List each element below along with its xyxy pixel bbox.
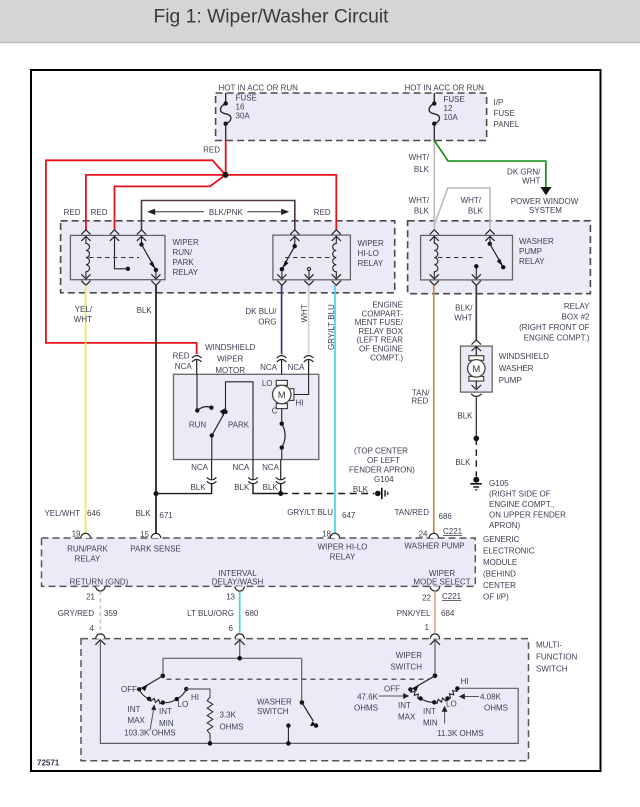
svg-text:680: 680 <box>245 609 259 618</box>
svg-text:15: 15 <box>140 530 149 539</box>
svg-text:COMPT.): COMPT.) <box>370 353 403 362</box>
svg-text:647: 647 <box>342 511 356 520</box>
connector (motor pin bottom mid) <box>248 460 258 484</box>
ground G104 <box>349 447 415 500</box>
coil (hi-lo relay) <box>333 237 337 278</box>
wire BLK dashed to ground G104 <box>281 493 375 495</box>
svg-text:RUN/: RUN/ <box>173 248 193 257</box>
switch (hi-lo relay contacts) <box>280 237 297 278</box>
svg-text:C: C <box>272 407 278 416</box>
pin (washer pump bottom) <box>472 381 482 390</box>
svg-text:BLK: BLK <box>414 165 430 174</box>
svg-text:DK GRN/: DK GRN/ <box>507 168 541 177</box>
coil (run/park relay) <box>86 237 90 278</box>
pin 24 (GEM washer pump) <box>404 527 464 551</box>
svg-text:MENT FUSE/: MENT FUSE/ <box>355 318 404 327</box>
svg-text:16: 16 <box>236 103 245 112</box>
node BLK junction to motor <box>154 491 159 496</box>
svg-text:OFF: OFF <box>121 685 137 694</box>
svg-text:WHT: WHT <box>454 314 472 323</box>
svg-text:WHT: WHT <box>74 315 92 324</box>
svg-text:WHT/: WHT/ <box>409 153 430 162</box>
svg-text:646: 646 <box>87 509 101 518</box>
svg-text:PUMP: PUMP <box>519 247 542 256</box>
svg-text:LO: LO <box>446 700 457 709</box>
connector (motor pin HI top) <box>304 356 314 375</box>
svg-text:BLK: BLK <box>137 306 153 315</box>
pin (hi-lo coil top) <box>332 230 341 241</box>
node BLK to ground junction <box>474 436 480 442</box>
node red junction <box>222 172 228 178</box>
switch (motor RUN contact) <box>189 374 214 429</box>
svg-text:GRY/LT BLU: GRY/LT BLU <box>327 304 336 350</box>
svg-text:(TOP CENTER: (TOP CENTER <box>354 447 408 456</box>
svg-text:ENGINE COMPT.): ENGINE COMPT.) <box>524 334 590 343</box>
switch (washer relay contacts) <box>488 237 506 269</box>
wire (park contact to mid bottom pin) <box>226 382 254 460</box>
svg-text:WIPER HI-LO: WIPER HI-LO <box>318 543 368 552</box>
contact (hi-lo mid open) <box>307 267 310 270</box>
svg-text:BLK: BLK <box>135 509 151 518</box>
pin (run/park switch bottom) <box>151 274 160 285</box>
wire BLK motor right pin to junction <box>280 483 282 494</box>
switch (washer switch) <box>257 698 318 746</box>
svg-text:FUSE: FUSE <box>236 94 257 103</box>
fuse 16 30A <box>220 93 256 141</box>
svg-text:YEL/: YEL/ <box>75 305 93 314</box>
label 4.08K OHMS pointer <box>459 693 508 713</box>
svg-text:NCA: NCA <box>191 463 209 472</box>
svg-text:RELAY: RELAY <box>330 553 356 562</box>
wire LT BLU/ORG pin 13 to pin 6 <box>239 591 241 633</box>
mechanical link (run/park) <box>89 257 139 259</box>
label BLK/PNK with arrows <box>147 208 289 217</box>
svg-text:RELAY: RELAY <box>519 257 545 266</box>
connector (motor pin bottom left) <box>207 460 217 484</box>
pin 13 (GEM interval delay/wash) <box>212 569 264 602</box>
svg-text:684: 684 <box>441 609 455 618</box>
svg-text:M: M <box>472 364 480 375</box>
svg-text:359: 359 <box>104 609 118 618</box>
wire GRY/LT BLU hi-lo coil to GEM pin 18 <box>334 285 336 534</box>
svg-text:PNK/YEL: PNK/YEL <box>397 609 431 618</box>
svg-text:PARK: PARK <box>228 421 250 430</box>
svg-text:INT: INT <box>159 707 172 716</box>
label 47.6K OHMS pointer <box>354 693 409 713</box>
svg-text:OF LEFT: OF LEFT <box>367 456 400 465</box>
svg-text:1: 1 <box>425 623 430 632</box>
svg-text:(RIGHT FRONT OF: (RIGHT FRONT OF <box>519 323 589 332</box>
svg-text:MIN: MIN <box>159 719 174 728</box>
svg-text:BLK: BLK <box>414 207 430 216</box>
svg-text:HI: HI <box>191 693 199 702</box>
svg-text:BLK: BLK <box>190 483 206 492</box>
svg-text:YEL/WHT: YEL/WHT <box>44 509 80 518</box>
mechanical link (MFS) <box>167 678 430 680</box>
switch (wiper mode rotary) <box>384 674 469 728</box>
pin (washer pump top) <box>472 340 482 356</box>
svg-text:WIPER: WIPER <box>358 239 384 248</box>
ground G105 <box>470 477 566 530</box>
header bar <box>0 0 640 43</box>
motor M2 washer pump <box>468 356 486 381</box>
svg-text:HI-LO: HI-LO <box>358 249 379 258</box>
svg-text:FUSE: FUSE <box>494 109 515 118</box>
svg-text:OF I/P): OF I/P) <box>483 593 509 602</box>
svg-text:MOTOR: MOTOR <box>215 366 245 375</box>
svg-text:NCA: NCA <box>175 362 193 371</box>
relay U2 wiper hi-lo relay <box>273 235 384 280</box>
svg-text:C221: C221 <box>442 592 462 601</box>
wire RED branch to middle pin <box>115 175 226 230</box>
svg-text:MIN: MIN <box>423 719 438 728</box>
pin 18 (GEM wiper hi-lo relay) <box>318 530 368 562</box>
svg-text:WASHER: WASHER <box>257 698 292 707</box>
wire DK BLU/ORG hi-lo to motor LO <box>281 285 283 354</box>
pin 1 (MFS) <box>425 623 440 645</box>
switch (interval delay rotary) <box>121 674 199 728</box>
svg-text:RELAY: RELAY <box>173 268 199 277</box>
windshield washer pump box <box>461 346 550 392</box>
svg-text:4.08K: 4.08K <box>480 693 502 702</box>
svg-text:I/P: I/P <box>494 98 504 107</box>
svg-text:PUMP: PUMP <box>499 376 522 385</box>
svg-text:ELECTRONIC: ELECTRONIC <box>483 547 535 556</box>
windshield wiper motor box <box>174 343 319 460</box>
svg-text:12: 12 <box>444 104 453 113</box>
svg-text:MODE SELECT: MODE SELECT <box>413 578 470 587</box>
svg-text:WHT: WHT <box>522 177 540 186</box>
svg-text:13: 13 <box>226 593 235 602</box>
svg-text:FUSE: FUSE <box>444 95 465 104</box>
svg-text:DK BLU/: DK BLU/ <box>245 307 277 316</box>
svg-text:HI: HI <box>461 677 469 686</box>
wire TAN/RED washer coil to GEM pin 24 <box>433 285 435 534</box>
svg-text:INT: INT <box>398 701 411 710</box>
wire RED main bus left coil pin to hi-lo coil pin <box>86 175 336 230</box>
pin 4 (MFS) <box>90 624 106 645</box>
svg-text:WIPER: WIPER <box>173 238 199 247</box>
svg-text:APRON): APRON) <box>489 521 520 530</box>
wire WHT/BLK branch to washer relay switch <box>434 188 490 230</box>
svg-text:NCA: NCA <box>233 463 251 472</box>
pin (run/park mid top) <box>110 230 119 241</box>
svg-text:SWITCH: SWITCH <box>257 707 289 716</box>
svg-text:WIPER: WIPER <box>396 651 422 660</box>
svg-text:OHMS: OHMS <box>220 723 244 732</box>
svg-text:FUNCTION: FUNCTION <box>536 653 578 662</box>
svg-text:HOT IN ACC OR RUN: HOT IN ACC OR RUN <box>405 84 485 93</box>
svg-text:OF ENGINE: OF ENGINE <box>359 345 403 354</box>
svg-text:G105: G105 <box>489 479 509 488</box>
svg-text:POWER WINDOW: POWER WINDOW <box>511 197 579 206</box>
svg-text:ON UPPER FENDER: ON UPPER FENDER <box>489 511 566 520</box>
pin 21 (GEM return gnd) <box>70 578 129 602</box>
svg-text:COMPART-: COMPART- <box>362 309 404 318</box>
svg-text:BLK/: BLK/ <box>455 304 473 313</box>
pin (washer coil top) <box>430 230 439 241</box>
svg-text:NCA: NCA <box>288 363 306 372</box>
svg-text:TAN/RED: TAN/RED <box>394 508 429 517</box>
svg-text:BLK: BLK <box>353 485 369 494</box>
wire BLK/WHT washer relay to pump <box>475 285 477 340</box>
coil (washer relay) <box>434 237 438 278</box>
svg-text:(RIGHT SIDE OF: (RIGHT SIDE OF <box>489 490 551 499</box>
mechanical link (hi-lo) <box>285 257 332 259</box>
wire (run/park mid contact) <box>115 237 128 269</box>
engine compartment fuse/relay box (dashed) <box>61 221 404 362</box>
svg-text:22: 22 <box>422 594 431 603</box>
svg-text:671: 671 <box>159 511 173 520</box>
svg-text:(BEHIND: (BEHIND <box>483 570 516 579</box>
svg-text:RELAY: RELAY <box>75 555 101 564</box>
svg-text:RUN/PARK: RUN/PARK <box>67 545 108 554</box>
svg-text:BLK: BLK <box>468 207 484 216</box>
svg-text:HOT IN ACC OR RUN: HOT IN ACC OR RUN <box>219 84 299 93</box>
svg-text:RELAY: RELAY <box>358 259 384 268</box>
svg-text:INT: INT <box>128 705 141 714</box>
relay U3 washer pump relay <box>421 235 554 280</box>
svg-text:RELAY: RELAY <box>564 302 590 311</box>
svg-text:RUN: RUN <box>189 421 207 430</box>
svg-text:72571: 72571 <box>37 759 60 768</box>
svg-text:WASHER PUMP: WASHER PUMP <box>404 542 464 551</box>
svg-text:BLK/PNK: BLK/PNK <box>209 208 243 217</box>
wire pin 1 to wiper switch pivot <box>434 641 436 676</box>
wire BLK run/park switch to GEM pin 15 <box>155 285 157 534</box>
wire WHT/BLK from fuse 12 to washer relay coil <box>433 141 435 230</box>
pin (hi-lo arm bottom) <box>277 274 286 285</box>
wire GRY/RED pin 21 to pin 4 (dashed) <box>99 591 101 633</box>
svg-text:OHMS: OHMS <box>354 704 378 713</box>
switch (motor PARK contact) <box>210 408 250 459</box>
svg-text:LO: LO <box>178 700 189 709</box>
svg-text:RED: RED <box>411 397 428 406</box>
switch (motor internal C breaker) <box>280 409 286 460</box>
wire WHT hi-lo to motor HI <box>308 285 310 354</box>
wire DK GRN/WHT to power window system <box>434 141 546 188</box>
svg-text:(LEFT REAR: (LEFT REAR <box>356 336 403 345</box>
pin (hi-lo mid bottom) <box>304 274 313 285</box>
pin (washer mid bottom) <box>472 274 481 285</box>
svg-text:PARK: PARK <box>173 258 195 267</box>
svg-text:GENERIC: GENERIC <box>483 535 520 544</box>
svg-text:RED: RED <box>203 146 220 155</box>
svg-text:WHT/: WHT/ <box>409 196 430 205</box>
wire PNK/YEL pin 22 to pin 1 <box>434 591 436 633</box>
contact (washer mid) <box>474 264 478 268</box>
svg-text:4: 4 <box>90 624 95 633</box>
svg-text:47.6K: 47.6K <box>357 693 379 702</box>
svg-text:RELAY BOX: RELAY BOX <box>358 327 403 336</box>
svg-text:FENDER APRON): FENDER APRON) <box>349 466 415 475</box>
svg-text:WHT/: WHT/ <box>461 196 482 205</box>
svg-text:WINDSHIELD: WINDSHIELD <box>499 352 549 361</box>
svg-text:OFF: OFF <box>384 685 400 694</box>
pin 19 (GEM run/park relay) <box>67 530 108 564</box>
svg-text:MODULE: MODULE <box>483 558 517 567</box>
connector (motor pin LO top) <box>277 356 287 375</box>
svg-text:LO: LO <box>262 379 273 388</box>
svg-text:PANEL: PANEL <box>494 120 520 129</box>
connector (motor pin RED top) <box>192 356 202 375</box>
pin 22 (GEM wiper mode select) <box>413 569 470 603</box>
svg-text:INT: INT <box>423 707 436 716</box>
svg-text:NCA: NCA <box>262 463 280 472</box>
svg-text:RED: RED <box>64 208 81 217</box>
pin (hi-lo coil bottom) <box>332 274 341 285</box>
svg-text:103.3K OHMS: 103.3K OHMS <box>124 729 176 738</box>
relay box #2 (dashed) <box>408 221 591 343</box>
svg-text:686: 686 <box>439 512 453 521</box>
diagram border frame <box>31 70 601 771</box>
connector (motor pin bottom right) <box>276 460 286 484</box>
fuse 12 10A <box>429 93 465 141</box>
svg-text:HI: HI <box>296 399 304 408</box>
svg-text:Fig 1: Wiper/Washer Circuit: Fig 1: Wiper/Washer Circuit <box>154 7 390 28</box>
svg-text:RED: RED <box>173 352 190 361</box>
svg-text:RED: RED <box>314 208 331 217</box>
svg-text:GRY/LT BLU: GRY/LT BLU <box>287 508 333 517</box>
svg-text:PARK SENSE: PARK SENSE <box>130 545 181 554</box>
svg-text:BLK: BLK <box>263 483 279 492</box>
wire YEL/WHT run/park coil to GEM pin 19 <box>85 285 87 534</box>
mechanical link (washer) <box>438 257 484 259</box>
wire HI to 3.3K resistor <box>186 689 210 697</box>
relay U1 wiper run/park relay <box>70 235 199 279</box>
svg-text:10A: 10A <box>444 113 459 122</box>
wire ground rail (pin 4 loop) <box>100 641 518 744</box>
svg-text:24: 24 <box>419 530 428 539</box>
pin 15 (GEM park sense) <box>130 530 181 554</box>
multi-function switch (dashed box) <box>81 639 578 761</box>
connector (washer pump lower) <box>471 394 481 439</box>
svg-text:MULTI-: MULTI- <box>536 641 562 650</box>
switch (run/park relay contacts) <box>139 237 158 278</box>
svg-text:OHMS: OHMS <box>484 704 508 713</box>
generic electronic module GEM (dashed box) <box>42 535 535 602</box>
pin (washer switch top) <box>485 230 494 241</box>
svg-text:MAX: MAX <box>398 713 416 722</box>
svg-text:RED: RED <box>91 208 108 217</box>
svg-text:WASHER: WASHER <box>499 364 534 373</box>
svg-text:M: M <box>278 390 286 401</box>
svg-text:3.3K: 3.3K <box>220 711 237 720</box>
svg-text:C221: C221 <box>443 527 463 536</box>
svg-text:ENGINE COMPT.,: ENGINE COMPT., <box>489 500 554 509</box>
svg-text:LT BLU/ORG: LT BLU/ORG <box>187 609 234 618</box>
svg-text:RETURN (GND): RETURN (GND) <box>70 578 129 587</box>
svg-text:WIPER: WIPER <box>217 355 243 364</box>
svg-text:6: 6 <box>229 624 234 633</box>
svg-text:SWITCH: SWITCH <box>390 663 422 672</box>
svg-text:30A: 30A <box>236 112 251 121</box>
svg-text:NCA: NCA <box>260 363 278 372</box>
label 103.3K OHMS pointer <box>124 704 176 737</box>
svg-text:SYSTEM: SYSTEM <box>529 206 562 215</box>
svg-text:BLK: BLK <box>457 412 473 421</box>
wire BLK dashed to ground G105 <box>475 438 477 476</box>
svg-text:MAX: MAX <box>128 716 146 725</box>
wire RED from fuse 16 to junction <box>225 141 227 175</box>
wire (motor HI feed) <box>294 374 309 394</box>
motor M1 wiper <box>262 379 304 416</box>
svg-text:BOX #2: BOX #2 <box>561 313 590 322</box>
I/P fuse panel box <box>216 93 520 141</box>
wire BLK/PNK between relay switch pins <box>142 201 295 230</box>
svg-text:ORG: ORG <box>258 318 276 327</box>
svg-text:11.3K OHMS: 11.3K OHMS <box>437 729 484 738</box>
svg-text:ENGINE: ENGINE <box>372 301 403 310</box>
svg-text:WHT: WHT <box>300 304 309 322</box>
wire BLK branch to motor left pin <box>156 483 212 494</box>
svg-text:BLK: BLK <box>234 483 250 492</box>
pin (run/park coil top) <box>81 230 90 241</box>
svg-text:WINDSHIELD: WINDSHIELD <box>205 343 255 352</box>
svg-text:DELAY/WASH: DELAY/WASH <box>212 578 264 587</box>
wire pin 6 feed to switches <box>163 641 302 703</box>
wire RED wrap-around to wiper motor <box>46 160 226 354</box>
pin 6 (MFS) <box>229 624 245 645</box>
wire BLK motor mid pin to junction <box>253 483 281 494</box>
pin (hi-lo switch top) <box>290 230 299 241</box>
svg-text:SWITCH: SWITCH <box>536 665 568 674</box>
node pin6 junction <box>237 656 242 661</box>
pin (washer coil bottom) <box>430 274 439 285</box>
svg-text:19: 19 <box>72 530 81 539</box>
pin (run/park coil bottom) <box>81 274 90 285</box>
svg-text:BLK: BLK <box>455 458 471 467</box>
svg-text:G104: G104 <box>374 475 394 484</box>
svg-text:21: 21 <box>86 593 95 602</box>
svg-text:CENTER: CENTER <box>483 581 516 590</box>
pin (run/park switch top) <box>137 230 146 241</box>
label 11.3K OHMS pointer <box>437 706 484 738</box>
resistor 3.3K <box>207 697 213 743</box>
svg-text:WASHER: WASHER <box>519 237 554 246</box>
svg-text:GRY/RED: GRY/RED <box>58 609 95 618</box>
svg-text:18: 18 <box>322 530 331 539</box>
